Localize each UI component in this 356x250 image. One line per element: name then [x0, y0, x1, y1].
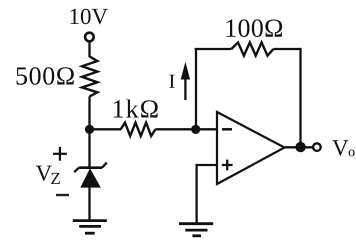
wire terminal to R 500 — [88, 42, 90, 57]
wire feedback down to output node — [299, 48, 301, 147]
wire zener to ground — [88, 188, 90, 221]
wire feedback top right — [273, 48, 300, 50]
ground left (zener) — [73, 221, 107, 234]
node A junction — [85, 125, 94, 134]
value label 500ohm — [17, 67, 74, 85]
resistor 500ohm — [82, 57, 97, 97]
wire non-inverting input — [197, 164, 217, 223]
wire node B to op-amp inverting input — [196, 128, 217, 130]
value label 100ohm — [227, 19, 283, 37]
node B junction — [191, 125, 200, 134]
zener diode VZ cathode bar — [74, 163, 107, 173]
terminal Vo (open circle) — [313, 143, 321, 151]
resistor 100ohm feedback — [231, 42, 273, 55]
terminal 10V (open circle) — [85, 33, 94, 42]
wire node A to R 1k — [90, 128, 122, 130]
output node junction — [295, 142, 305, 152]
op-amp inverting input minus sign — [222, 128, 232, 131]
wire node A to zener — [88, 129, 90, 167]
wire R 500 to node A — [88, 96, 90, 129]
wire op-amp output — [285, 146, 313, 148]
label I — [169, 75, 174, 88]
polarity plus label (zener) — [53, 147, 67, 161]
label 10V supply — [71, 9, 108, 25]
label VZ — [36, 166, 60, 184]
zener diode VZ anode triangle — [80, 168, 101, 187]
current arrow I — [181, 62, 190, 100]
wire feedback top left — [195, 48, 232, 50]
wire R 1k to node B — [155, 128, 195, 130]
wire node B up to feedback — [195, 49, 197, 129]
value label 1kohm — [114, 100, 158, 118]
label Vo — [332, 140, 354, 156]
op-amp non-inverting input plus sign — [222, 160, 233, 171]
op-amp U1 — [217, 112, 285, 184]
polarity minus label (zener) — [56, 194, 69, 196]
resistor 1kohm — [121, 123, 156, 136]
ground right (op-amp non-inverting) — [179, 224, 213, 236]
